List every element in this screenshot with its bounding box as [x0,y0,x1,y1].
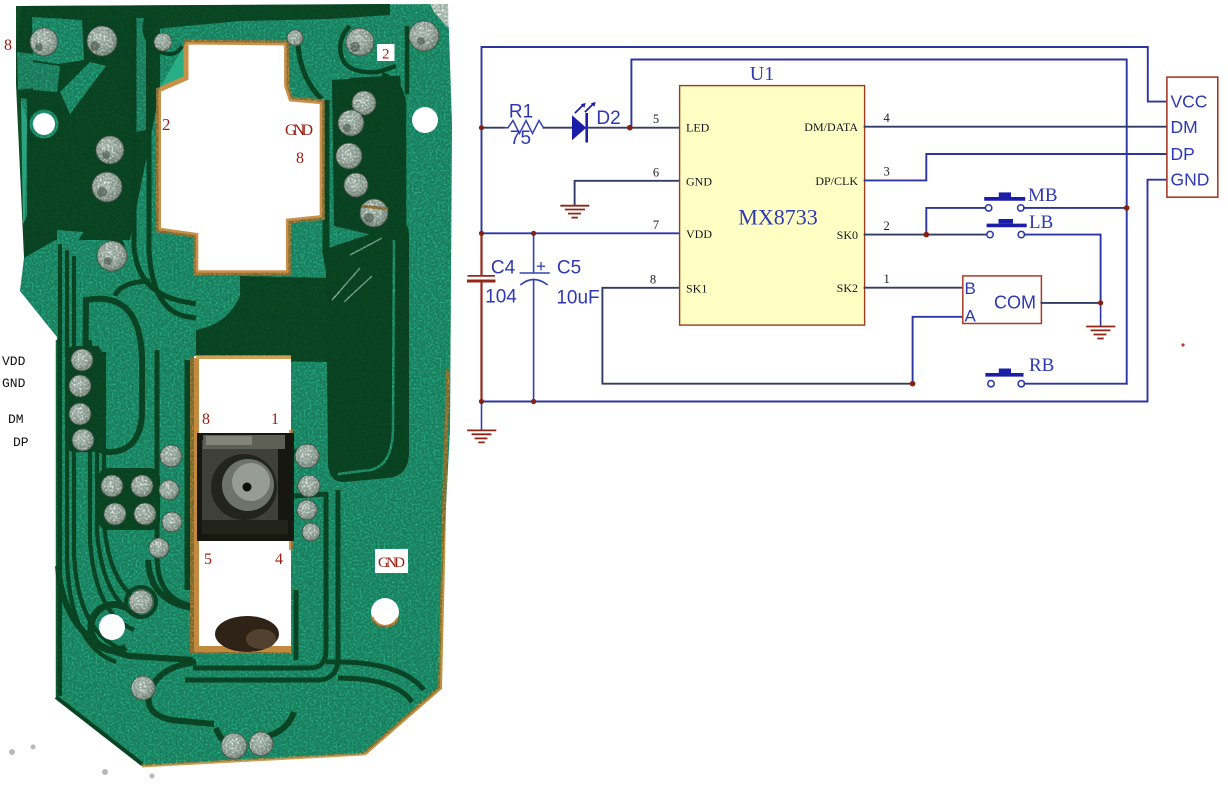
bright patch below blob1 [33,62,60,92]
svg-text:R1: R1 [509,102,533,123]
wire SK0 pin2 to LB [865,234,987,236]
svg-text:75: 75 [510,128,531,149]
dark pocket behind connector pads [66,346,102,452]
wire left rail to ground [481,402,483,429]
svg-text:4: 4 [275,551,283,568]
hole small center [111,242,122,253]
wire SK2 pin1 to B [865,287,963,289]
sensor lens inner [232,463,270,501]
connector box VCC/DM/DP/GND [1167,77,1218,197]
svg-text:3: 3 [883,165,889,179]
sensor top clip [203,435,285,449]
capacitor C4 [468,233,494,401]
svg-text:DM/DATA: DM/DATA [804,120,858,134]
dark trace hugging cutout right step [298,45,322,99]
thumb lobe outline [85,299,142,452]
junction dots [479,125,1130,404]
svg-text:4: 4 [883,111,890,125]
svg-text:1: 1 [883,272,889,286]
stray red speck [1181,343,1184,346]
tan strip bottom edge [196,646,291,654]
tan streak on blob 213 [362,206,388,209]
tan board edge right lower [364,370,448,754]
capacitor C5 [520,233,549,401]
switch RB [985,369,1024,387]
wire MB right [1024,207,1127,209]
svg-text:GND: GND [378,555,405,571]
svg-text:B: B [965,279,976,298]
svg-text:2: 2 [162,115,171,134]
svg-text:SK2: SK2 [837,281,858,295]
paper specks bottom-left [9,745,155,779]
sensor lens mid ring [222,459,274,511]
svg-text:DM: DM [8,412,24,427]
LED D2 [572,102,596,141]
dark band central below cutout [196,276,330,362]
hole bottom-left [99,614,125,640]
label box GND right [375,549,408,573]
dark loop around blob 163,42 [145,18,182,54]
dark edge left side [56,340,59,698]
bright inner line of dark mass [338,240,394,474]
sensor window strip [194,356,291,652]
dark ring around blob 602 [126,587,156,617]
svg-text:MX8733: MX8733 [738,205,817,230]
svg-text:GND: GND [686,175,712,189]
tan strip right edge [289,430,293,550]
svg-text:5: 5 [204,551,212,568]
svg-text:LED: LED [686,121,710,135]
svg-text:SK0: SK0 [837,228,858,242]
svg-text:GND: GND [285,122,313,139]
dark tall mass right [322,225,409,482]
hole bottom-right [371,598,399,626]
board base [16,4,452,766]
svg-text:LB: LB [1029,212,1053,233]
wire DM pin4 [865,126,1167,128]
svg-text:8: 8 [202,411,210,428]
svg-text:C5: C5 [557,258,581,279]
sensor inner frame [202,440,278,532]
scratches on dark mass [332,238,382,302]
wire R1 to D2 [544,127,573,129]
solder blobs [30,21,439,759]
dirt blob at strip bottom [215,616,279,652]
wire COM right [1041,302,1100,304]
wire A to RB row [913,317,963,384]
svg-text:10uF: 10uF [556,288,599,309]
switch LB [987,219,1027,238]
wire LB right to COM gnd node [1025,235,1101,302]
wire VDD left rail upper [481,128,483,234]
photo grain overlay [16,4,452,766]
cutout plus-shape [159,42,323,273]
svg-text:6: 6 [653,166,659,180]
left trace bundle [60,244,146,696]
svg-text:2: 2 [883,219,889,233]
sensor lens dot [243,483,252,492]
svg-text:DP: DP [13,435,29,450]
svg-text:1: 1 [271,411,279,428]
dark edge bottom-left diagonal [56,697,142,764]
svg-text:DP: DP [1171,144,1195,164]
dark top-left mass [16,6,160,258]
svg-text:COM: COM [994,293,1036,313]
dark trace left of strip [157,350,193,606]
torn white top-right corner [428,0,456,30]
wire VCC top rail [482,47,1168,128]
wire D2 to pin5 [588,127,680,129]
dark top band [22,4,390,40]
svg-text:U1: U1 [750,63,774,85]
switch MB [984,192,1025,211]
sensor clip highlight [206,436,252,445]
dark pocket behind right blob column [332,76,404,238]
bright patch around blob1 [32,17,84,64]
ground symbol (COM) [1087,327,1114,339]
wire LED-anode to MB/RB right rail [631,60,1126,384]
chip U1 body [680,86,865,326]
tan board edge bottom [142,754,364,766]
sensor lens outer dark ring [211,454,277,520]
upper blob-zone dark outlines [340,26,407,225]
label box 2 right [377,44,395,61]
resistor R1 [504,121,543,134]
bright wedge diagonal [60,62,106,114]
svg-text:GND: GND [2,376,26,391]
svg-text:D2: D2 [596,108,620,129]
svg-text:C4: C4 [491,258,516,279]
bright patch at left edge [17,52,33,90]
dark trace along cutout right edge [323,100,330,250]
svg-text:104: 104 [485,287,517,308]
tan crescent under bottom-right hole [372,617,398,626]
wire R1 left segment [482,127,505,129]
ground symbol (main) [468,430,495,442]
wire DP pin3 [865,154,1167,180]
encoder COM box [963,276,1042,324]
wire RB right [1025,383,1127,385]
wire COM gnd stub [1100,303,1102,325]
tan strip top edge [196,355,291,359]
dark trace along strip left edge [185,360,192,590]
svg-text:VDD: VDD [686,227,712,241]
svg-text:DP/CLK: DP/CLK [815,174,858,188]
svg-text:2: 2 [382,47,390,63]
hole top-right [412,107,438,133]
svg-text:8: 8 [4,37,12,54]
svg-text:5: 5 [653,112,659,126]
svg-text:A: A [965,307,977,326]
svg-text:DM: DM [1171,117,1198,137]
dark ring small hole [107,238,125,256]
hole top-left [33,113,55,135]
vertical trace pair under dark mass [185,452,424,702]
svg-text:GND: GND [1171,170,1210,190]
bright slit right of mitten [136,18,146,132]
sensor dark bottom band [202,520,288,534]
svg-text:8: 8 [296,150,304,167]
ground symbol (pin6) [561,206,588,218]
dark pepper on some blobs [35,37,425,265]
bottom GND rail [482,180,1168,402]
svg-text:VDD: VDD [2,354,26,369]
sensor body [197,433,294,541]
thumb top connector [115,281,150,296]
tan strip left edge [190,358,199,654]
wire SK1 pin8 to RB row [602,288,912,384]
dark arc around bottom-left hole [91,605,126,651]
bright sliver left edge mid [21,98,27,224]
svg-text:7: 7 [653,218,659,232]
bright halo around top-left hole [30,110,59,139]
wire VDD pin7 [482,232,680,234]
wire GND pin6 [575,181,680,206]
dark pocket behind 2x2 pad cluster [98,468,160,530]
wire MB branch [926,208,985,235]
bottom big traces [58,560,294,748]
svg-text:MB: MB [1028,185,1058,206]
dark trace pair left of cutout [134,16,196,318]
svg-text:8: 8 [650,273,656,287]
svg-text:RB: RB [1029,355,1054,376]
bright patch left column lower [57,230,84,262]
svg-text:VCC: VCC [1171,92,1208,112]
svg-text:SK1: SK1 [686,281,707,295]
